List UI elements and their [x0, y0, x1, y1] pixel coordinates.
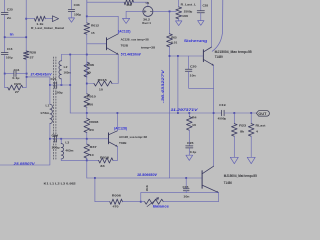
resistor R016 33 (horizontal) [87, 159, 99, 161]
wire: U1 minus terminal to ground [126, 10, 143, 12]
wire: wiper vertical [140, 193, 142, 202]
svg-text:2500µ: 2500µ [184, 9, 193, 13]
wire: rail E top [169, 11, 171, 33]
ground left of U1 [123, 18, 130, 23]
capacitor C26 0.1u [186, 146, 193, 148]
capacitor C21 100u (series) [50, 84, 55, 86]
transistor Q2 MJ15004 (bottom output) [201, 171, 203, 189]
resistor R05 0.01 (Sicherung) [167, 34, 173, 47]
svg-text:R012: R012 [91, 23, 99, 27]
transistor Q1 MJ15004 (top output) [202, 50, 204, 62]
wire: base wire lower driver [87, 138, 108, 140]
svg-text:(AC128): (AC128) [114, 126, 127, 130]
wire: in net horizontal [5, 36, 27, 38]
svg-text:470: 470 [113, 205, 119, 209]
potentiometer Balance [141, 201, 145, 203]
wire: lead to R 1.1k [26, 18, 34, 20]
svg-text:R010: R010 [87, 94, 96, 98]
svg-text:C26: C26 [187, 141, 194, 145]
ground under C33 [69, 18, 75, 22]
svg-text:27: 27 [30, 56, 34, 60]
svg-text:10: 10 [99, 88, 103, 92]
svg-text:-36.433227V: -36.433227V [161, 69, 165, 104]
svg-text:R28: R28 [30, 50, 37, 54]
svg-text:L1: L1 [46, 103, 50, 107]
svg-text:T1456: T1456 [224, 181, 232, 185]
inductor L2 163m [60, 55, 62, 61]
svg-text:2n: 2n [7, 16, 12, 20]
capacitor C33 100u to ground [71, 0, 73, 9]
wire: rail E long [169, 47, 171, 178]
base wire Q1 [170, 55, 204, 57]
svg-text:20: 20 [89, 128, 94, 132]
svg-text:MJ15004_Max temp=55: MJ15004_Max temp=55 [215, 50, 252, 54]
wiper wire [141, 192, 219, 194]
svg-text:K1 L1 L2 L3 0.982: K1 L1 L2 L3 0.982 [44, 181, 76, 185]
svg-text:C24: C24 [52, 133, 59, 137]
svg-text:10n: 10n [183, 194, 189, 198]
wire: right rail top (input branch) [25, 0, 27, 51]
svg-text:8k: 8k [240, 129, 244, 133]
capacitor C24 100u (series) [50, 138, 55, 140]
resistor R36 30 [84, 62, 90, 77]
svg-text:R008: R008 [89, 120, 98, 124]
wire: Q1 emitter rail down to Q2 collector [213, 65, 215, 166]
junction L1 top [49, 84, 51, 86]
capacitor C25 [1, 13, 8, 15]
svg-text:R05: R05 [171, 35, 177, 39]
wire: left loop side [4, 74, 6, 88]
capacitor C20 10n [188, 56, 190, 69]
output flag OUT [256, 111, 269, 116]
svg-text:571.44316mV: 571.44316mV [121, 52, 142, 56]
curved wire top right [212, 0, 223, 51]
svg-text:10: 10 [90, 153, 94, 157]
svg-text:4500µ: 4500µ [218, 117, 227, 121]
svg-text:18.506650V: 18.506650V [137, 173, 158, 177]
svg-text:4: 4 [256, 129, 258, 133]
capacitor C28 [200, 0, 202, 11]
ground under C28 [198, 21, 204, 26]
svg-text:C33: C33 [74, 3, 80, 7]
wire: secondary top run [61, 54, 118, 56]
wire: C24 node to driver rail [61, 138, 87, 140]
wire: top feed [86, 15, 88, 17]
svg-text:C25: C25 [7, 7, 13, 11]
svg-text:MJ15004_Mat temp=55: MJ15004_Mat temp=55 [224, 174, 257, 178]
svg-text:(AC132): (AC132) [118, 30, 131, 34]
wire: emitter down to R016 [116, 146, 118, 160]
wire: rail below R28 [25, 59, 27, 87]
junction to transformer [26, 76, 28, 78]
svg-text:L2: L2 [64, 65, 68, 69]
resistor R010 500 [84, 94, 90, 108]
svg-text:11.297371V: 11.297371V [171, 108, 199, 112]
wire [86, 133, 88, 139]
input arrow marker [52, 16, 58, 22]
resistor RLast 4 [250, 112, 252, 114]
wire: rail D continues [86, 44, 88, 94]
svg-text:C15: C15 [183, 185, 189, 189]
svg-text:463m: 463m [65, 148, 73, 152]
wire: rail D down to base wire Q2 [86, 160, 88, 178]
transformer core dashed lines [52, 57, 54, 160]
svg-text:R23: R23 [239, 124, 246, 128]
capacitor C16 [1, 53, 8, 55]
svg-text:C11: C11 [14, 68, 20, 72]
resistor R37 10 [86, 139, 88, 144]
wire: U1 plus to right rail [153, 10, 176, 12]
svg-text:RLast: RLast [256, 124, 266, 128]
base wire Q upper driver [87, 43, 106, 45]
svg-text:temp=38: temp=38 [141, 45, 155, 49]
svg-text:33: 33 [100, 164, 105, 168]
svg-text:Rser=1: Rser=1 [142, 21, 151, 25]
wire: driver rail D top [86, 0, 88, 23]
transistor Q lower driver (AC128) [108, 133, 110, 144]
resistor R_Last_linker_Kanal 1.1k [35, 16, 46, 21]
wire: Q1 collector to top edge [211, 0, 213, 47]
ground under R_Last_L [176, 21, 182, 26]
junction L3 top [60, 138, 62, 140]
resistor R015 10 (horizontal) [86, 83, 88, 85]
wire: rail D to out wire [86, 107, 88, 113]
base wire Q2 [87, 177, 202, 179]
wire: left rail below C25 [4, 15, 6, 52]
inductor L3 463m [60, 139, 62, 144]
RC loop top wire with C11 [4, 73, 6, 75]
resistor R_Last_L 100 [178, 0, 180, 7]
wire: emitter return [166, 201, 218, 203]
svg-text:R20: R20 [14, 82, 21, 86]
svg-text:R016: R016 [100, 156, 109, 160]
resistor R008 20 [86, 113, 88, 118]
wire: left rail top [4, 0, 6, 12]
resistor R23 8k [233, 112, 235, 114]
wire: to mid rail [61, 84, 70, 86]
svg-text:R015: R015 [98, 78, 107, 82]
ground under R23 [230, 157, 238, 163]
junction balance pot left [140, 201, 142, 203]
svg-text:100µ: 100µ [74, 12, 81, 16]
svg-text:OUT: OUT [258, 112, 266, 116]
wire: mid rail C [69, 55, 71, 114]
svg-text:C20: C20 [190, 64, 197, 68]
wire: rail D top [86, 0, 88, 16]
svg-text:100: 100 [182, 14, 188, 18]
node in junction [4, 36, 6, 38]
ground under RLast [247, 157, 255, 163]
svg-text:C19: C19 [219, 103, 226, 107]
svg-text:Balance: Balance [153, 205, 169, 209]
transistor Q upper driver (AC132) [106, 38, 108, 50]
wire: L3 bottom to rail [61, 159, 87, 161]
svg-text:15: 15 [91, 31, 95, 35]
resistor 150 at top edge [87, 1, 124, 3]
svg-text:AC128_soa temp=38: AC128_soa temp=38 [119, 135, 147, 139]
svg-text:in: in [10, 32, 14, 36]
svg-text:37.454141mV: 37.454141mV [31, 73, 53, 77]
capacitor C15 10n [185, 177, 187, 179]
wire: left rail below C16 [4, 55, 6, 73]
svg-text:T02B: T02B [121, 44, 129, 48]
wire: Q2 emitter down [217, 193, 219, 202]
svg-text:R36: R36 [87, 63, 94, 67]
junction C24 left [49, 138, 51, 140]
svg-text:L3: L3 [65, 141, 69, 145]
svg-text:Sicherung: Sicherung [184, 39, 207, 43]
ground under C26 [186, 155, 193, 160]
svg-text:173m: 173m [40, 111, 49, 115]
svg-text:100µ: 100µ [6, 56, 13, 60]
svg-text:10n: 10n [190, 74, 196, 78]
svg-text:500: 500 [87, 102, 93, 106]
resistor R012 15 [84, 23, 90, 34]
svg-text:27: 27 [15, 90, 19, 94]
wire: collector to out rail [116, 113, 118, 131]
svg-text:10: 10 [192, 123, 196, 127]
voltage source U1 [143, 6, 153, 16]
svg-text:0.1µ: 0.1µ [190, 150, 197, 154]
svg-text:X4: X4 [145, 185, 149, 192]
svg-text:0.1µ: 0.1µ [12, 76, 19, 80]
svg-text:C28: C28 [203, 4, 209, 8]
svg-text:150: 150 [126, 3, 132, 7]
junction L2 bottom [61, 84, 63, 86]
resistor R28 27 [24, 51, 29, 59]
svg-text:0.01: 0.01 [171, 41, 177, 45]
svg-text:R_Last_L: R_Last_L [181, 2, 197, 6]
svg-text:T02B: T02B [119, 141, 127, 145]
capacitor C11 0.1u [14, 71, 16, 77]
svg-text:AC128_soa temp=38: AC128_soa temp=38 [121, 37, 149, 41]
resistor R20 27 [5, 87, 8, 89]
wire: L1 bottom down and left [0, 139, 50, 165]
svg-text:R37: R37 [90, 145, 97, 149]
capacitor C19 4500u (series) [222, 110, 225, 116]
svg-text:R_Last_linker_Kanal: R_Last_linker_Kanal [31, 26, 64, 30]
svg-text:U1: U1 [146, 1, 150, 5]
wire: collector up to top rail [117, 16, 119, 34]
svg-text:C16: C16 [7, 47, 13, 51]
svg-text:R4: R4 [192, 116, 197, 120]
Zobel resistor R4 10 [188, 112, 190, 114]
wire: rail D to base wire [86, 34, 88, 44]
inductor L1 173m [49, 85, 51, 104]
wire: node to out rail [177, 56, 179, 113]
svg-text:T1459: T1459 [215, 55, 223, 59]
junction dot at in/right rail [25, 36, 27, 38]
svg-text:R006: R006 [112, 194, 121, 198]
svg-text:100µ: 100µ [52, 145, 60, 149]
junction at 1.1k branch [25, 18, 27, 20]
wire: to transformer primary [27, 77, 50, 85]
resistor R006 470 [94, 177, 96, 179]
out net wire [70, 112, 221, 114]
